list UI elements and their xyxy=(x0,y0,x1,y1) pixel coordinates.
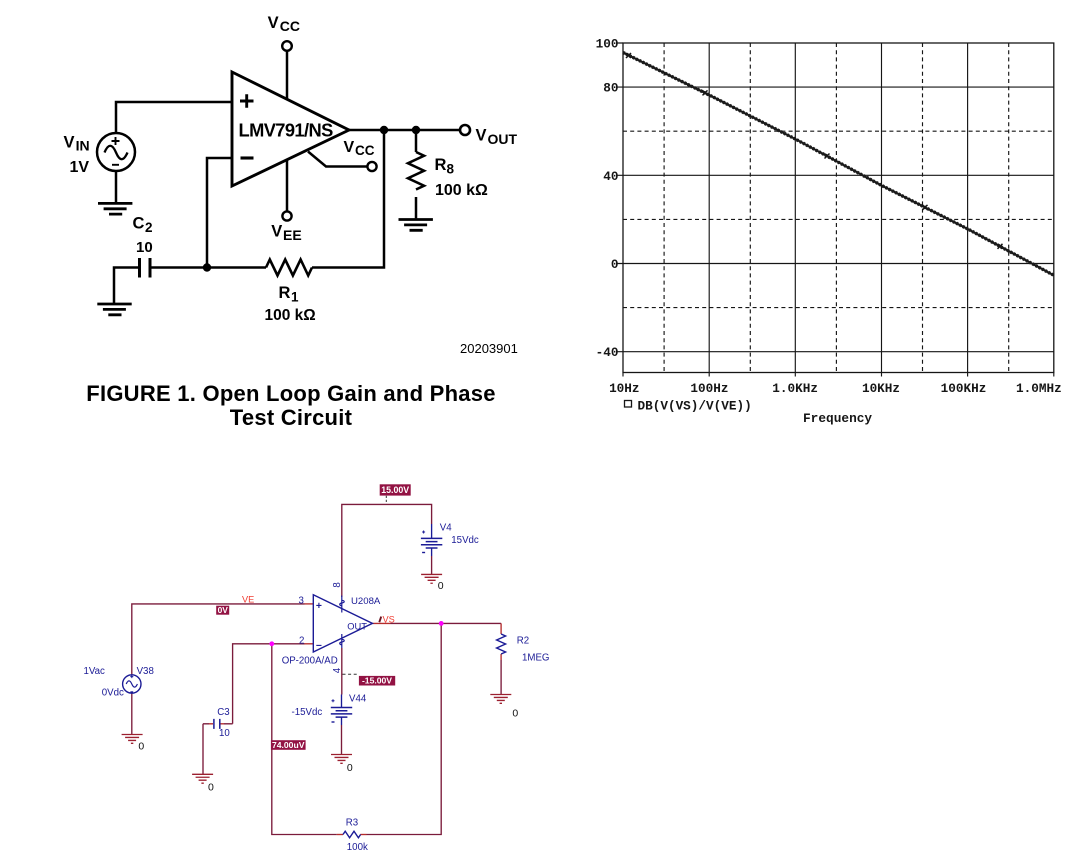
svg-text:10: 10 xyxy=(219,728,230,739)
net marker tick before VS xyxy=(379,617,381,623)
pin 4 lead with hook xyxy=(340,634,344,648)
svg-text:-15Vdc: -15Vdc xyxy=(292,707,323,718)
V4 plus mark xyxy=(422,531,425,534)
ground under C2 branch xyxy=(97,304,131,315)
VEE terminal circle xyxy=(282,211,291,220)
svg-text:R2: R2 xyxy=(517,636,529,647)
svg-text:74.00uV: 74.00uV xyxy=(272,740,305,750)
V4 battery top lead xyxy=(431,524,433,538)
svg-text:VS: VS xyxy=(383,614,395,624)
svg-text:4: 4 xyxy=(332,667,343,673)
op-amp minus mark xyxy=(316,644,321,646)
gridline 1.0KHz xyxy=(794,43,796,373)
svg-text:U208A: U208A xyxy=(351,596,381,607)
wire V+ rail pin 8 to V4 xyxy=(342,504,432,597)
wire VIN bottom to ground xyxy=(115,171,118,203)
pin stub C3 plates xyxy=(209,723,224,725)
wire V38 bottom to ground xyxy=(131,693,133,734)
pin stub op-amp output xyxy=(372,622,390,624)
dashed gridline -20dB xyxy=(623,307,1054,309)
wire enable pin to VCC circle xyxy=(308,152,367,167)
legend marker square xyxy=(625,401,632,408)
junction node at output VS xyxy=(439,621,444,626)
figure caption xyxy=(0,382,582,431)
x-axis tick marks xyxy=(623,373,1054,377)
pin stub R2 top xyxy=(500,623,502,634)
wire V38 to pin 3 net VE xyxy=(132,604,305,675)
wire VIN top to noninverting input xyxy=(116,102,232,133)
resistor R2 zigzag xyxy=(497,634,506,654)
pin stub op-amp pin 3 xyxy=(305,603,314,605)
svg-text:OP-200A/AD: OP-200A/AD xyxy=(282,656,338,667)
svg-text:15Vdc: 15Vdc xyxy=(451,535,479,546)
svg-text:3: 3 xyxy=(299,595,304,606)
bias badge -15.00V xyxy=(343,674,396,685)
wire C3 left plate to ground xyxy=(203,724,209,775)
svg-text:0: 0 xyxy=(138,741,144,753)
wire output to R2 xyxy=(391,622,502,624)
pin 8 lead with hook xyxy=(340,596,344,613)
wire R8 top xyxy=(415,130,418,152)
svg-text:0: 0 xyxy=(208,782,214,794)
V44 minus mark xyxy=(332,721,335,723)
wire R3 to output node xyxy=(367,623,442,834)
svg-text:2: 2 xyxy=(299,635,304,646)
wire feedback node to R3 xyxy=(272,644,337,835)
bias badge 15.00V xyxy=(380,484,411,503)
gridline 80dB xyxy=(623,86,1054,88)
V38 source circle xyxy=(123,675,141,693)
wire R2 bottom to ground xyxy=(500,660,502,695)
svg-text:0Vdc: 0Vdc xyxy=(102,688,124,699)
svg-text:100k: 100k xyxy=(347,842,368,853)
node A junction C2/R1/inverting xyxy=(203,263,211,271)
wire V44 bottom to ground xyxy=(341,725,343,755)
source minus mark xyxy=(112,164,119,166)
dashed gridline 3KHz xyxy=(835,43,837,373)
ground under VIN xyxy=(98,203,132,214)
y-axis tick marks xyxy=(617,43,624,352)
svg-text:0: 0 xyxy=(438,580,444,592)
svg-text:VE: VE xyxy=(242,594,254,604)
svg-text:OUT: OUT xyxy=(347,621,367,631)
wire VCC to op-amp xyxy=(286,51,289,99)
V4 battery plates xyxy=(421,538,442,548)
wire R8 bottom xyxy=(415,197,418,218)
V38 minus mark xyxy=(130,691,133,693)
trace marker 3 xyxy=(825,154,830,159)
svg-text:C3: C3 xyxy=(217,707,229,718)
ground 0 under V4 xyxy=(421,574,442,583)
wire C2 right plate to R1 left xyxy=(151,266,267,269)
svg-text:1Vac: 1Vac xyxy=(84,666,106,677)
capacitor C2 plates xyxy=(140,258,151,278)
wire C2 left plate to ground xyxy=(114,268,138,305)
source sine wave xyxy=(105,146,128,160)
wire output to VOUT terminal xyxy=(349,129,460,132)
V44 battery top lead xyxy=(341,695,343,708)
gridline 100Hz xyxy=(708,43,710,373)
svg-text:8: 8 xyxy=(332,582,343,587)
wire C3 to pin 2 xyxy=(224,644,305,724)
VCC terminal circle top xyxy=(282,41,292,51)
dashed gridline 30KHz xyxy=(922,43,924,373)
VOUT terminal circle xyxy=(460,125,470,135)
pin stub R3 right xyxy=(360,834,366,836)
ground 0 under V44 xyxy=(331,755,352,764)
source VIN circle xyxy=(97,133,135,171)
svg-text:0: 0 xyxy=(512,708,518,720)
dashed gridline 300KHz xyxy=(1008,43,1010,373)
wire inverting input from node A xyxy=(207,158,232,268)
pin stub R3 left xyxy=(337,834,343,836)
dashed gridline 60dB xyxy=(623,130,1054,132)
wire R1 right to output node xyxy=(312,130,384,268)
pin stub R2 bottom xyxy=(500,654,502,660)
trace marker 1 xyxy=(626,53,631,58)
V44 plus mark xyxy=(332,699,335,702)
wire V4 bottom to ground xyxy=(431,556,433,574)
wire VEE from op-amp xyxy=(286,160,289,212)
trace marker 2 xyxy=(703,90,708,95)
node junction at feedback/output xyxy=(380,126,388,134)
gridline 10KHz xyxy=(881,43,883,373)
VCC enable terminal circle xyxy=(367,162,376,171)
wire pin 4 to V44 xyxy=(341,648,343,695)
V4 minus mark xyxy=(422,552,425,554)
resistor R1 zigzag xyxy=(266,260,312,276)
source plus mark xyxy=(112,137,120,145)
trace marker 5 xyxy=(998,244,1003,249)
gain trace DB(V(VS)/V(VE)) xyxy=(623,53,1054,276)
svg-text:0: 0 xyxy=(347,762,353,774)
svg-text:R3: R3 xyxy=(346,817,358,828)
svg-text:V44: V44 xyxy=(349,694,367,705)
ground 0 under C3 xyxy=(192,774,213,783)
node junction at R8 top xyxy=(412,126,420,134)
ground 0 under R2 xyxy=(490,695,511,704)
op-amp plus mark xyxy=(316,603,321,608)
op-amp minus sign xyxy=(241,156,254,159)
dashed gridline 300Hz xyxy=(749,43,751,373)
gridline -40dB xyxy=(623,351,1054,353)
V44 bottom lead xyxy=(341,717,343,725)
gain trace marker chain overlay xyxy=(623,53,1054,276)
dashed gridline 30Hz xyxy=(663,43,665,373)
V4 bottom lead xyxy=(431,548,433,556)
resistor R3 zigzag xyxy=(343,831,361,838)
svg-text:1MEG: 1MEG xyxy=(522,653,549,664)
ground 0 under V38 xyxy=(122,735,143,744)
gridline 100KHz xyxy=(967,43,969,373)
svg-text:15.00V: 15.00V xyxy=(381,485,409,495)
trace marker 4 xyxy=(923,205,928,210)
op-amp plus sign xyxy=(240,94,254,107)
svg-text:V38: V38 xyxy=(137,666,154,677)
gridline 0dB xyxy=(623,263,1054,265)
dashed gridline 20dB xyxy=(623,218,1054,220)
plot border box xyxy=(623,43,1054,373)
op-amp U1 triangle xyxy=(232,72,349,186)
pin stub op-amp pin 2 xyxy=(305,643,314,645)
capacitor C3 plates xyxy=(214,719,220,729)
V44 battery plates xyxy=(331,708,352,718)
V38 plus mark xyxy=(130,675,133,678)
resistor R8 zigzag xyxy=(408,152,424,190)
svg-text:0V: 0V xyxy=(218,605,229,615)
junction node at pin 2 xyxy=(269,641,274,646)
svg-text:V4: V4 xyxy=(440,523,452,534)
bias badge 0V xyxy=(216,605,229,615)
gridline 40dB xyxy=(623,174,1054,176)
bias badge 74.00uV xyxy=(271,740,306,750)
svg-text:-15.00V: -15.00V xyxy=(362,676,392,686)
ground under R8 xyxy=(399,220,433,231)
V38 sine wave xyxy=(126,681,137,687)
op-amp U208A triangle xyxy=(313,595,372,652)
